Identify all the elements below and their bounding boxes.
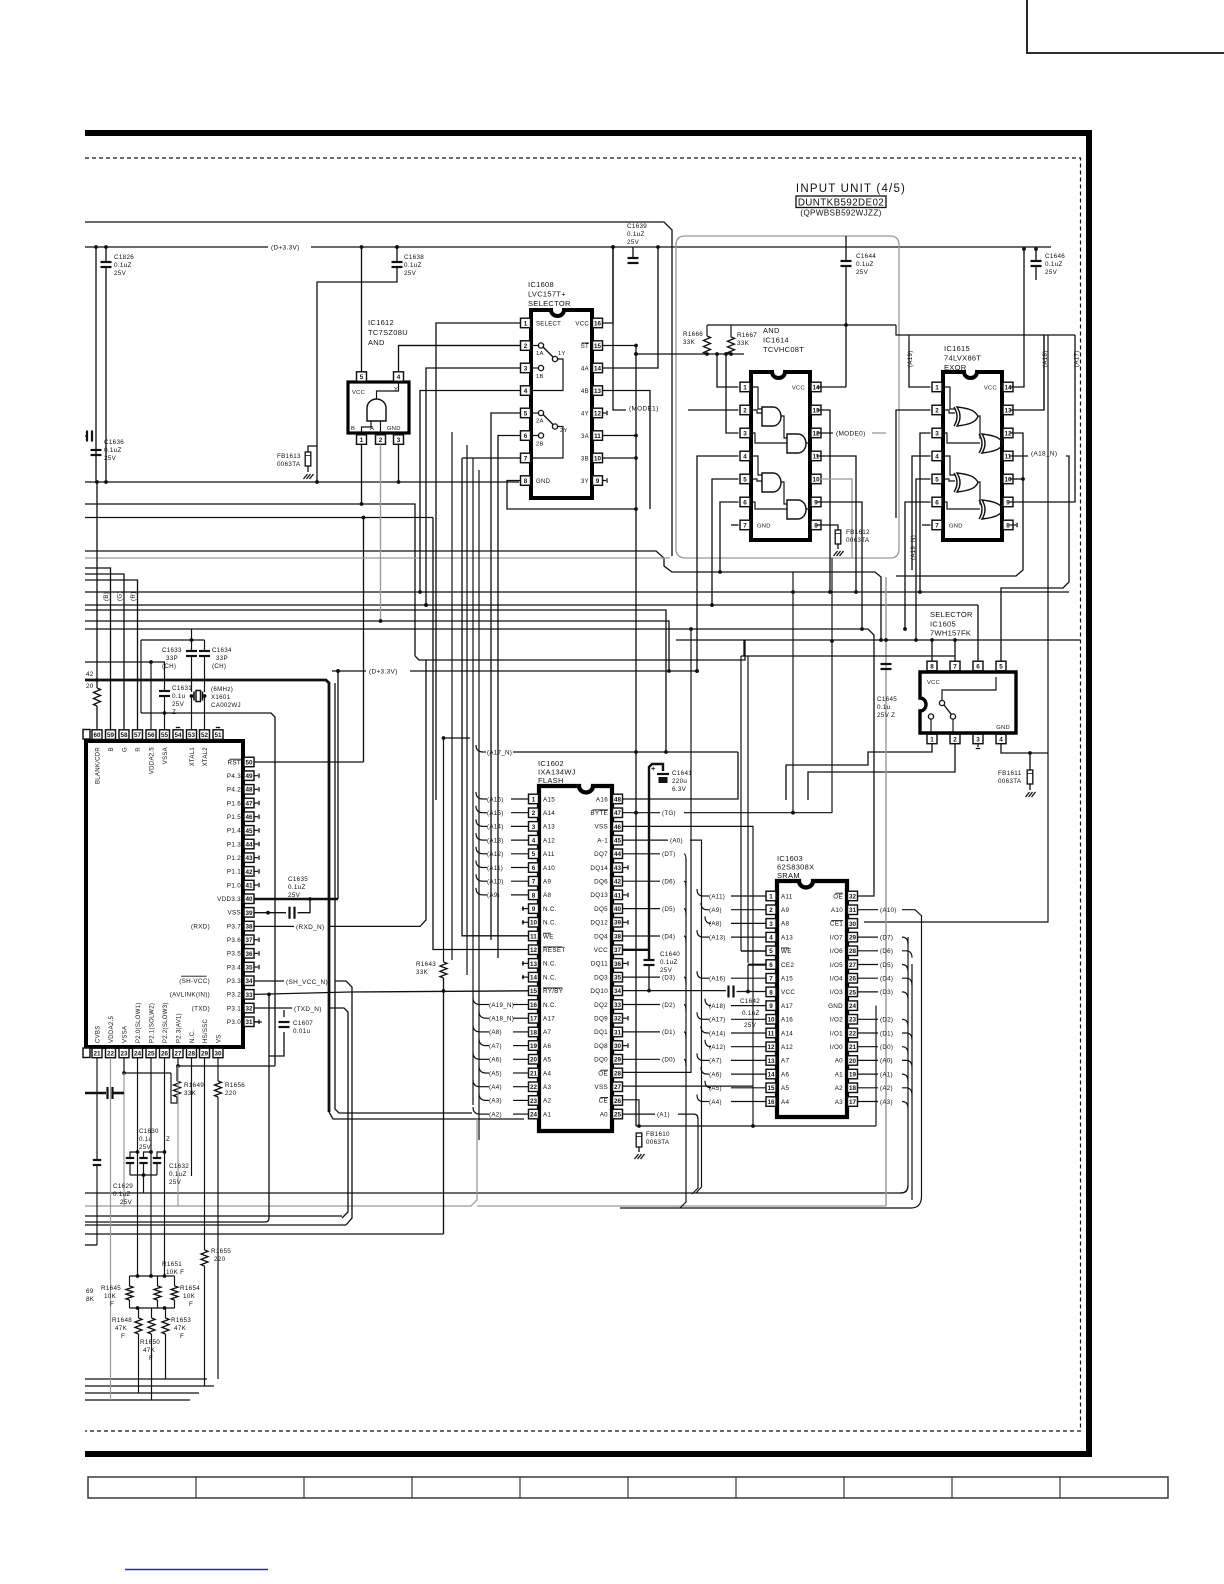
wire: y610-631 buses (85, 610, 666, 752)
svg-text:11: 11 (1005, 453, 1012, 460)
D bus vertical (680, 860, 686, 1208)
flash OE wire (623, 629, 692, 1072)
wire y660 (415, 640, 745, 660)
svg-text:P2.0(SLOW1): P2.0(SLOW1) (136, 1002, 142, 1043)
svg-text:2A: 2A (536, 419, 544, 425)
svg-text:9: 9 (814, 499, 818, 506)
svg-text:(A2): (A2) (489, 1111, 502, 1118)
svg-text:R1651: R1651 (162, 1261, 182, 1268)
svg-text:6.3V: 6.3V (672, 786, 687, 793)
svg-text:25V: 25V (120, 1199, 133, 1206)
svg-text:DQ3: DQ3 (594, 974, 608, 981)
svg-text:(D0): (D0) (880, 1044, 893, 1051)
svg-text:DQ11: DQ11 (591, 961, 608, 968)
svg-text:P1.6: P1.6 (227, 800, 241, 807)
svg-text:10: 10 (594, 455, 602, 462)
svg-text:Z: Z (166, 1136, 170, 1143)
svg-text:33P: 33P (216, 655, 228, 662)
svg-text:VCC: VCC (984, 386, 997, 392)
dashed inner border (85, 158, 1081, 1431)
MCU right pin column (50..31) (244, 757, 254, 767)
svg-text:P3.4: P3.4 (227, 964, 241, 971)
svg-text:DQ12: DQ12 (590, 920, 608, 927)
svg-text:2: 2 (743, 407, 747, 414)
svg-text:(A18_N): (A18_N) (1031, 451, 1057, 458)
svg-text:(A16): (A16) (487, 796, 504, 803)
svg-text:42: 42 (245, 869, 253, 876)
svg-text:30: 30 (849, 921, 857, 928)
net (A0) pin45 (623, 839, 669, 841)
svg-text:11: 11 (594, 433, 601, 440)
svg-text:220u: 220u (672, 778, 687, 785)
svg-text:(A5): (A5) (489, 1070, 502, 1077)
svg-text:0.1uZ: 0.1uZ (113, 1191, 131, 1198)
wire: y640 rail to selector (676, 639, 1080, 641)
svg-text:37: 37 (245, 937, 253, 944)
svg-text:33K: 33K (416, 969, 429, 976)
svg-text:A-1: A-1 (597, 837, 608, 844)
svg-text:9: 9 (769, 1003, 773, 1010)
svg-text:VDDA2.5: VDDA2.5 (109, 1016, 115, 1043)
svg-text:P1.0: P1.0 (227, 882, 241, 889)
wire: D+3.3V top rail (85, 246, 268, 248)
svg-text:(R): (R) (130, 592, 137, 602)
svg-text:A17: A17 (543, 1016, 555, 1023)
svg-text:11: 11 (768, 1030, 775, 1037)
svg-text:0.1uZ: 0.1uZ (404, 262, 422, 269)
wire: thick bus y680 from left (85, 680, 329, 1112)
svg-text:OE: OE (598, 1070, 608, 1077)
IC1608 internal switch 1 (538, 343, 543, 348)
svg-text:FB1613: FB1613 (277, 453, 301, 460)
flash VCC thick + capacitor C1641 (623, 764, 664, 950)
svg-text:3: 3 (743, 430, 747, 437)
svg-text:(D+3.3V): (D+3.3V) (271, 245, 300, 252)
svg-text:3B: 3B (581, 456, 589, 462)
capacitor C1642 + flash DQ10 wire (623, 990, 727, 992)
svg-text:0.1u: 0.1u (172, 693, 186, 700)
IC1612 wires (361, 247, 363, 372)
svg-text:2: 2 (379, 437, 383, 444)
svg-text:35: 35 (245, 964, 253, 971)
wire: pin60 BLANK/CDR with series resistor (96, 482, 98, 688)
svg-text:44: 44 (245, 841, 253, 848)
wire: y662 line (VSSA net) (85, 661, 165, 663)
svg-text:C1636: C1636 (104, 439, 124, 446)
svg-text:B: B (109, 747, 115, 751)
svg-text:C1646: C1646 (1045, 253, 1065, 260)
svg-text:21: 21 (93, 1050, 101, 1057)
svg-text:42: 42 (614, 879, 622, 886)
wire: y592 bus (85, 591, 1069, 593)
svg-text:I/O3: I/O3 (830, 989, 843, 996)
svg-text:(D3): (D3) (880, 989, 893, 996)
svg-text:(A7): (A7) (489, 1043, 502, 1050)
wire: y656 line into selector pin7 (743, 640, 745, 656)
svg-text:(D2): (D2) (880, 1017, 893, 1024)
svg-text:A16: A16 (781, 1017, 793, 1024)
svg-text:47K: 47K (174, 1325, 187, 1332)
svg-text:C1641: C1641 (672, 770, 692, 777)
IC1614 pin wires (717, 354, 739, 387)
svg-text:0.1uZ: 0.1uZ (742, 1010, 760, 1017)
svg-text:2: 2 (935, 407, 939, 414)
svg-text:FB1611: FB1611 (998, 770, 1022, 777)
svg-text:DQ8: DQ8 (594, 1043, 608, 1050)
svg-text:A8: A8 (543, 892, 551, 899)
svg-text:DQ4: DQ4 (594, 933, 608, 940)
IC1605 pin wires (931, 640, 933, 661)
svg-text:36: 36 (245, 951, 253, 958)
svg-text:37: 37 (614, 947, 622, 954)
svg-text:(D6): (D6) (662, 879, 675, 886)
svg-text:(D5): (D5) (662, 906, 675, 913)
svg-text:A9: A9 (781, 907, 789, 914)
svg-text:40: 40 (245, 896, 253, 903)
svg-text:38: 38 (245, 923, 253, 930)
svg-text:4: 4 (935, 453, 939, 460)
svg-text:26: 26 (614, 1098, 622, 1105)
svg-text:A7: A7 (781, 1058, 789, 1065)
A18 net down to SRAM CE1 (864, 335, 1048, 922)
svg-text:A9: A9 (543, 879, 551, 886)
svg-text:DQ7: DQ7 (594, 851, 608, 858)
svg-text:32: 32 (245, 1005, 253, 1012)
svg-text:7: 7 (953, 663, 957, 670)
svg-text:23: 23 (530, 1098, 538, 1105)
svg-text:BYTE: BYTE (590, 810, 608, 817)
svg-text:(A14): (A14) (709, 1030, 726, 1037)
svg-text:(A11): (A11) (487, 865, 503, 872)
resistor network 10K (130, 1275, 175, 1277)
svg-text:(SH-VCC): (SH-VCC) (179, 978, 210, 985)
svg-text:(A5): (A5) (709, 1085, 722, 1092)
svg-text:VCC: VCC (792, 386, 805, 392)
svg-text:39: 39 (245, 910, 253, 917)
svg-text:FB1610: FB1610 (646, 1131, 670, 1138)
svg-text:5: 5 (532, 851, 536, 858)
svg-text:P3.5: P3.5 (227, 951, 241, 958)
resistor R1655 (201, 1250, 208, 1266)
svg-text:0063TA: 0063TA (646, 1139, 670, 1146)
svg-text:A8: A8 (781, 921, 789, 928)
svg-text:R1656: R1656 (225, 1082, 245, 1089)
svg-text:(MODE1): (MODE1) (629, 406, 659, 413)
svg-text:17: 17 (849, 1099, 857, 1106)
svg-text:4: 4 (397, 374, 401, 381)
svg-text:3A: 3A (581, 434, 589, 440)
svg-text:P3.0: P3.0 (227, 1019, 241, 1026)
svg-text:(SH_VCC_N): (SH_VCC_N) (286, 979, 328, 986)
MCU top pin row (83, 730, 90, 740)
svg-text:LVC157T+: LVC157T+ (528, 290, 566, 299)
svg-text:DQ0: DQ0 (594, 1057, 608, 1064)
svg-text:C1634: C1634 (212, 647, 232, 654)
svg-text:A13: A13 (781, 934, 793, 941)
svg-text:39: 39 (614, 920, 622, 927)
svg-text:30: 30 (214, 1050, 222, 1057)
blue underline bottom-left (125, 1569, 268, 1571)
svg-text:VCC: VCC (575, 321, 589, 327)
svg-text:(A9): (A9) (487, 892, 500, 899)
wire: y517 RST bus (85, 517, 433, 519)
svg-text:9: 9 (1006, 499, 1010, 506)
svg-text:51: 51 (214, 732, 222, 739)
svg-text:55: 55 (161, 732, 169, 739)
svg-text:26: 26 (849, 976, 857, 983)
svg-text:48: 48 (245, 787, 253, 794)
svg-text:A3: A3 (543, 1084, 551, 1091)
svg-text:P3.1: P3.1 (227, 1005, 241, 1012)
svg-text:12: 12 (812, 430, 820, 437)
svg-text:P1.2: P1.2 (227, 855, 241, 862)
svg-text:DQ10: DQ10 (590, 988, 608, 995)
svg-text:A2: A2 (835, 1085, 843, 1092)
svg-text:16: 16 (594, 320, 602, 327)
svg-text:25V: 25V (744, 1022, 757, 1029)
svg-text:44: 44 (614, 851, 622, 858)
svg-text:(D2): (D2) (662, 1002, 675, 1009)
capacitor C1640 (648, 950, 650, 960)
svg-text:(D1): (D1) (880, 1030, 893, 1037)
svg-text:2Y: 2Y (560, 428, 568, 434)
svg-text:VCC: VCC (927, 680, 940, 686)
svg-text:(D7): (D7) (880, 934, 893, 941)
svg-text:(A3): (A3) (489, 1098, 502, 1105)
svg-text:A6: A6 (543, 1043, 551, 1050)
svg-text:P1.4: P1.4 (227, 828, 241, 835)
capacitors C1633 C1634 (141, 639, 205, 641)
svg-text:54: 54 (174, 732, 182, 739)
svg-text:SRAM: SRAM (777, 871, 800, 880)
svg-text:35: 35 (614, 975, 622, 982)
svg-text:(A1): (A1) (657, 1111, 670, 1118)
ferrite bead FB1613 (305, 452, 311, 466)
svg-text:P2.2(SLOW3): P2.2(SLOW3) (163, 1002, 169, 1043)
svg-text:8: 8 (930, 663, 934, 670)
svg-text:45: 45 (245, 828, 253, 835)
resistor R1656 (217, 1058, 219, 1081)
svg-text:(A9): (A9) (709, 907, 722, 914)
svg-text:10: 10 (767, 1017, 775, 1024)
svg-text:29: 29 (849, 935, 857, 942)
svg-text:25V: 25V (104, 455, 117, 462)
svg-text:I/O5: I/O5 (830, 962, 843, 969)
svg-text:22: 22 (849, 1030, 857, 1037)
svg-text:14: 14 (594, 365, 602, 372)
svg-text:(A16): (A16) (709, 976, 726, 983)
svg-text:DQ1: DQ1 (594, 1029, 608, 1036)
svg-text:A1: A1 (835, 1071, 843, 1078)
svg-text:SELECT: SELECT (536, 322, 561, 328)
svg-text:(D3): (D3) (662, 974, 675, 981)
svg-text:33K: 33K (184, 1090, 197, 1097)
wire: gray enclosure around IC1614 (676, 236, 899, 558)
svg-text:57: 57 (134, 732, 142, 739)
svg-text:21: 21 (849, 1044, 857, 1051)
svg-text:A7: A7 (543, 1029, 551, 1036)
svg-text:IC1605: IC1605 (930, 620, 956, 629)
wire: bottom buses (85, 1192, 902, 1194)
svg-text:F: F (110, 1301, 114, 1308)
svg-text:23: 23 (849, 1017, 857, 1024)
svg-text:(A2): (A2) (880, 1085, 893, 1092)
wire: WE net from IC1608 pin7 (462, 458, 528, 936)
svg-text:41: 41 (614, 892, 622, 899)
svg-text:FLASH: FLASH (538, 776, 564, 785)
wire: RESET net from RST bus (433, 518, 528, 950)
svg-text:4: 4 (999, 736, 1003, 743)
svg-text:P1.3: P1.3 (227, 841, 241, 848)
svg-text:45: 45 (614, 838, 622, 845)
svg-text:2: 2 (953, 736, 957, 743)
svg-text:6: 6 (976, 663, 980, 670)
svg-text:42: 42 (86, 671, 94, 678)
svg-text:GND: GND (536, 479, 551, 485)
svg-text:1: 1 (769, 893, 773, 900)
svg-text:69: 69 (86, 1288, 94, 1295)
svg-text:A6: A6 (781, 1071, 789, 1078)
resistor R1649 (176, 1066, 178, 1081)
svg-text:(A11): (A11) (709, 893, 725, 900)
svg-text:VCC: VCC (352, 390, 365, 396)
bus verticals to flash (451, 432, 453, 960)
svg-text:Z: Z (172, 709, 176, 716)
flash right side nets (623, 812, 661, 814)
svg-text:10: 10 (812, 476, 820, 483)
svg-text:IC1612: IC1612 (368, 318, 394, 327)
svg-text:DQ2: DQ2 (594, 1002, 608, 1009)
svg-text:47K: 47K (115, 1325, 128, 1332)
svg-text:IC1608: IC1608 (528, 280, 554, 289)
svg-text:25: 25 (614, 1112, 622, 1119)
svg-text:47K: 47K (143, 1347, 156, 1354)
svg-text:0.1uZ: 0.1uZ (856, 261, 874, 268)
svg-text:VSS: VSS (595, 1084, 609, 1091)
svg-text:I/O4: I/O4 (830, 976, 843, 983)
svg-text:4B: 4B (581, 389, 589, 395)
IC1608 internal switch 2 (538, 410, 543, 415)
corridor verticals (747, 656, 749, 963)
svg-text:(A8): (A8) (489, 1029, 502, 1036)
svg-text:1Y: 1Y (558, 351, 566, 357)
svg-text:60: 60 (93, 732, 101, 739)
svg-text:0.1uZ: 0.1uZ (660, 959, 678, 966)
svg-text:(A7): (A7) (709, 1058, 722, 1065)
wire: y713 crystal gnd line (141, 713, 275, 1066)
svg-text:12: 12 (594, 410, 602, 417)
capacitor C1826 (105, 247, 107, 262)
svg-text:23: 23 (120, 1050, 128, 1057)
svg-text:8: 8 (814, 522, 818, 529)
svg-text:P2.3(AV1): P2.3(AV1) (177, 1013, 183, 1043)
svg-text:6: 6 (524, 433, 528, 440)
svg-text:XTAL2: XTAL2 (203, 747, 209, 767)
svg-text:(RXD_N): (RXD_N) (296, 924, 324, 931)
svg-text:(MODE0): (MODE0) (836, 431, 866, 438)
svg-text:R1666: R1666 (683, 331, 703, 338)
svg-text:0063TA: 0063TA (277, 461, 301, 468)
svg-text:VSSA: VSSA (163, 747, 169, 764)
svg-text:12: 12 (767, 1044, 775, 1051)
ferrite bead FB1612 (817, 525, 839, 530)
svg-text:28: 28 (188, 1050, 196, 1057)
IC1615 gates (957, 407, 978, 426)
svg-text:VSS: VSS (228, 910, 242, 917)
svg-text:5: 5 (935, 476, 939, 483)
svg-text:24: 24 (849, 1003, 857, 1010)
svg-text:0.1uZ: 0.1uZ (169, 1171, 187, 1178)
svg-text:R1655: R1655 (211, 1248, 231, 1255)
svg-text:18: 18 (849, 1085, 857, 1092)
svg-text:(CH): (CH) (212, 663, 226, 670)
svg-text:8: 8 (769, 989, 773, 996)
svg-text:(6MHz): (6MHz) (211, 686, 233, 693)
svg-text:25V: 25V (139, 1144, 151, 1151)
svg-text:AND: AND (368, 338, 385, 347)
svg-text:28: 28 (614, 1070, 622, 1077)
svg-text:7: 7 (935, 522, 939, 529)
svg-text:A2: A2 (543, 1098, 551, 1105)
svg-text:10K F: 10K F (166, 1269, 184, 1276)
svg-text:A12: A12 (543, 837, 555, 844)
svg-text:A13: A13 (543, 824, 555, 831)
wire: D+3.3V mid rail y671 (332, 670, 366, 672)
svg-text:R1654: R1654 (180, 1285, 200, 1292)
svg-text:I/O2: I/O2 (830, 1017, 843, 1024)
svg-text:3: 3 (935, 430, 939, 437)
svg-text:38: 38 (614, 933, 622, 940)
svg-text:220: 220 (225, 1090, 237, 1097)
svg-text:F: F (149, 1355, 153, 1362)
svg-text:27: 27 (174, 1050, 182, 1057)
svg-text:25V: 25V (627, 239, 640, 246)
svg-text:29: 29 (614, 1057, 622, 1064)
svg-text:C1635: C1635 (288, 876, 308, 883)
svg-text:P2.1(SOLW2): P2.1(SOLW2) (150, 1003, 156, 1043)
svg-text:VSSA: VSSA (123, 1026, 129, 1043)
net (RXD_N) (255, 925, 295, 927)
MCU right-side pin wires (255, 761, 364, 763)
svg-text:C1826: C1826 (114, 254, 134, 261)
svg-text:(A1): (A1) (880, 1071, 893, 1078)
svg-text:4: 4 (524, 388, 528, 395)
svg-text:4: 4 (743, 453, 747, 460)
svg-text:(A19_N): (A19_N) (489, 1002, 514, 1009)
svg-text:F: F (121, 1333, 125, 1340)
svg-text:CVBS: CVBS (96, 1025, 102, 1043)
svg-text:(A19): (A19) (907, 350, 914, 367)
svg-text:I/O1: I/O1 (830, 1030, 843, 1037)
svg-text:0.1u: 0.1u (877, 704, 891, 711)
svg-text:INPUT UNIT (4/5): INPUT UNIT (4/5) (796, 183, 906, 195)
svg-text:A5: A5 (781, 1085, 789, 1092)
svg-text:P3.7: P3.7 (227, 923, 241, 930)
svg-text:(A10): (A10) (880, 907, 897, 914)
bottom left wires of MCU (178, 1065, 275, 1067)
svg-text:(A4): (A4) (709, 1099, 722, 1106)
svg-text:A5: A5 (543, 1057, 551, 1064)
svg-text:A14: A14 (781, 1030, 793, 1037)
svg-text:0.1uZ: 0.1uZ (1045, 261, 1063, 268)
SRAM OE wire up (858, 893, 874, 896)
svg-text:GND: GND (949, 524, 963, 530)
svg-text:AND: AND (763, 326, 780, 335)
svg-text:A0: A0 (600, 1111, 608, 1118)
svg-text:ST: ST (581, 344, 589, 350)
SRAM bus verticals + bottom rounded corners (907, 937, 909, 1185)
svg-text:25V: 25V (288, 892, 301, 899)
